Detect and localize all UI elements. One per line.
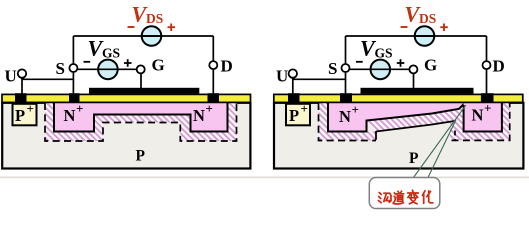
svg-text:+: + (301, 101, 308, 116)
svg-text:G: G (152, 56, 165, 75)
svg-text:N: N (472, 106, 484, 125)
svg-text:D: D (493, 57, 505, 76)
svg-text:S: S (328, 59, 337, 78)
svg-text:N: N (64, 106, 76, 125)
svg-text:+: + (76, 101, 83, 116)
svg-text:+: + (27, 101, 34, 116)
svg-text:+: + (484, 101, 491, 116)
svg-text:U: U (276, 67, 288, 86)
svg-text:S: S (56, 59, 65, 78)
svg-text:G: G (424, 56, 437, 75)
svg-text:GS: GS (375, 46, 393, 61)
svg-text:+: + (206, 101, 213, 116)
svg-text:DS: DS (146, 11, 163, 26)
svg-text:N: N (193, 106, 205, 125)
svg-text:D: D (221, 57, 233, 76)
svg-text:P: P (15, 106, 25, 125)
svg-text:N: N (339, 107, 351, 126)
svg-text:P: P (409, 150, 419, 167)
svg-text:DS: DS (419, 11, 436, 26)
svg-text:P: P (136, 148, 146, 165)
svg-text:U: U (5, 67, 17, 86)
svg-text:P: P (289, 106, 299, 125)
svg-text:GS: GS (102, 46, 120, 61)
svg-text:+: + (352, 102, 359, 117)
